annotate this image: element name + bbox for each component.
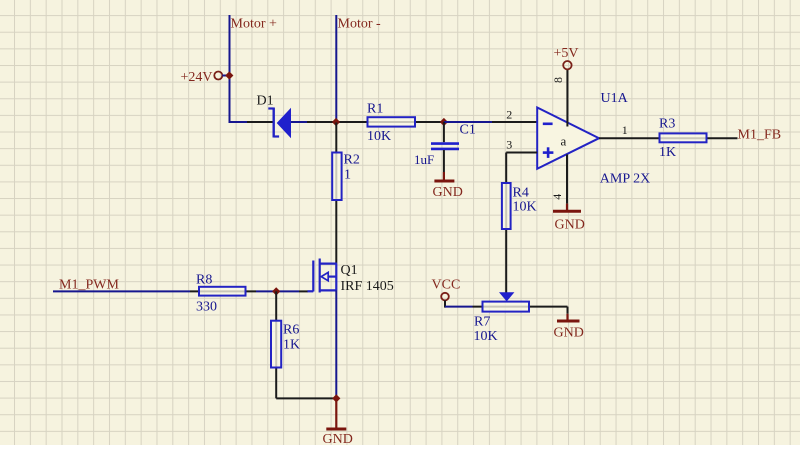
svg-text:1: 1 [622, 123, 628, 137]
junction dot source node [332, 394, 340, 402]
svg-text:+5V: +5V [554, 46, 579, 61]
svg-text:GND: GND [433, 185, 463, 200]
svg-text:AMP 2X: AMP 2X [600, 172, 650, 187]
wire top rail left [230, 121, 248, 123]
svg-text:a: a [561, 134, 567, 149]
wire VCC to R7 [445, 306, 473, 308]
wire R8 to gate junction [256, 290, 299, 292]
power port VCC [432, 278, 461, 308]
potentiometer R7 [473, 292, 568, 311]
wire diode to R1 [291, 121, 307, 123]
wire source to ground rail [335, 290, 337, 399]
resistor R8 [190, 287, 256, 296]
svg-text:GND: GND [555, 218, 585, 233]
svg-text:GND: GND [323, 432, 353, 445]
ground at C1 [433, 172, 463, 200]
svg-text:+24V: +24V [181, 70, 213, 85]
power port +5V [554, 46, 579, 69]
wire R7 to ground [567, 307, 569, 314]
svg-text:2: 2 [506, 108, 512, 122]
power port +24V [181, 70, 230, 85]
pin 2 of U1A [492, 108, 537, 123]
resistor R2 [332, 123, 341, 264]
svg-text:10K: 10K [474, 329, 498, 344]
svg-text:10K: 10K [367, 129, 391, 144]
svg-text:VCC: VCC [432, 278, 461, 293]
capacitor C1 [431, 122, 459, 172]
svg-text:Motor +: Motor + [231, 16, 278, 31]
wire Motor- vertical [335, 15, 337, 123]
junction dot C1 node [440, 118, 448, 126]
svg-text:R8: R8 [196, 273, 212, 288]
svg-text:R3: R3 [659, 117, 675, 132]
wire C1 node to op-amp [444, 121, 493, 123]
ground at R7 [554, 314, 584, 341]
svg-text:8: 8 [551, 77, 565, 83]
pin 3 of U1A [506, 137, 537, 152]
wire bottom rail [276, 397, 336, 399]
svg-text:1K: 1K [659, 145, 676, 160]
ground at U1A pin 4 [553, 204, 585, 233]
svg-text:R4: R4 [513, 186, 529, 201]
svg-text:Motor -: Motor - [338, 16, 382, 31]
svg-text:R1: R1 [367, 102, 383, 117]
wire M1_PWM [53, 290, 190, 292]
svg-text:1uF: 1uF [414, 152, 434, 167]
op-amp U1A [537, 108, 599, 169]
resistor R4 [502, 153, 511, 293]
diode D1 [247, 108, 291, 139]
transistor Q1 [308, 259, 338, 293]
pin 4 of U1A [550, 154, 567, 203]
svg-text:M1_FB: M1_FB [738, 128, 782, 143]
svg-text:3: 3 [506, 137, 512, 151]
svg-text:GND: GND [554, 326, 584, 341]
pin 1 of U1A [599, 123, 660, 138]
junction at +24V tap [225, 71, 233, 79]
svg-text:IRF 1405: IRF 1405 [341, 279, 394, 294]
svg-text:R2: R2 [344, 153, 360, 168]
svg-text:R6: R6 [283, 322, 299, 337]
svg-text:1: 1 [344, 168, 351, 183]
svg-text:4: 4 [550, 194, 564, 200]
resistor R3 [660, 133, 738, 142]
junction dot gate node [272, 287, 280, 295]
svg-text:M1_PWM: M1_PWM [59, 277, 119, 292]
svg-text:R7: R7 [474, 315, 490, 330]
svg-text:1K: 1K [283, 338, 300, 353]
pin gate of Q1 [299, 290, 308, 292]
pin 8 of U1A [551, 69, 567, 126]
svg-text:D1: D1 [257, 94, 274, 109]
svg-text:C1: C1 [460, 123, 476, 138]
svg-text:330: 330 [196, 300, 217, 315]
pin run diode junction to C1 node [307, 121, 444, 123]
resistor R6 [271, 291, 281, 398]
svg-text:Q1: Q1 [341, 263, 358, 278]
svg-text:10K: 10K [513, 200, 537, 215]
junction dot Motor- top rail [332, 118, 340, 126]
wire Motor+ vertical [229, 15, 231, 123]
svg-text:U1A: U1A [601, 91, 629, 106]
resistor R1 [368, 117, 416, 126]
ground at source [323, 399, 353, 447]
